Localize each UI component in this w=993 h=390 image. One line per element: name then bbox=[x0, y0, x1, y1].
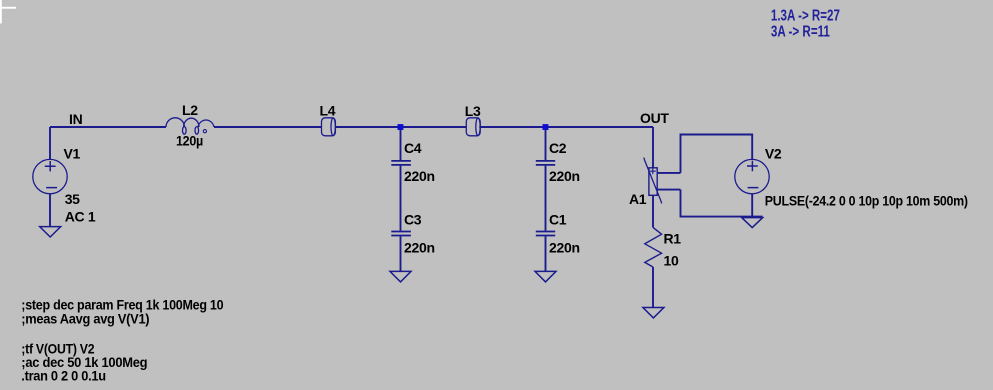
svg-text:L3: L3 bbox=[465, 103, 481, 119]
svg-text:220n: 220n bbox=[404, 168, 435, 184]
svg-text:A1: A1 bbox=[629, 191, 647, 207]
svg-text:1.3A -> R=27: 1.3A -> R=27 bbox=[771, 7, 840, 24]
svg-text:;meas Aavg avg V(V1): ;meas Aavg avg V(V1) bbox=[21, 310, 149, 326]
svg-text:V1: V1 bbox=[64, 145, 81, 161]
svg-text:L2: L2 bbox=[182, 102, 198, 118]
svg-text:C3: C3 bbox=[404, 211, 422, 227]
svg-text:AC 1: AC 1 bbox=[65, 209, 96, 225]
svg-text:IN: IN bbox=[69, 111, 83, 127]
svg-text:C1: C1 bbox=[549, 211, 567, 227]
svg-text:35: 35 bbox=[65, 191, 80, 207]
svg-text:220n: 220n bbox=[549, 240, 580, 256]
svg-text:220n: 220n bbox=[549, 168, 580, 184]
svg-text:C2: C2 bbox=[549, 140, 567, 156]
svg-text:V2: V2 bbox=[765, 146, 782, 162]
svg-text:3A -> R=11: 3A -> R=11 bbox=[771, 23, 830, 40]
svg-text:PULSE(-24.2 0 0 10p 10p 10m 50: PULSE(-24.2 0 0 10p 10p 10m 500m) bbox=[765, 192, 968, 208]
svg-text:220n: 220n bbox=[404, 240, 435, 256]
svg-text:120µ: 120µ bbox=[176, 133, 203, 149]
svg-text:C4: C4 bbox=[404, 140, 422, 156]
svg-text:R1: R1 bbox=[664, 230, 682, 246]
svg-text:10: 10 bbox=[664, 253, 679, 269]
svg-text:OUT: OUT bbox=[640, 110, 669, 126]
svg-text:L4: L4 bbox=[320, 103, 336, 119]
svg-text:.tran 0 2 0 0.1u: .tran 0 2 0 0.1u bbox=[21, 367, 106, 383]
